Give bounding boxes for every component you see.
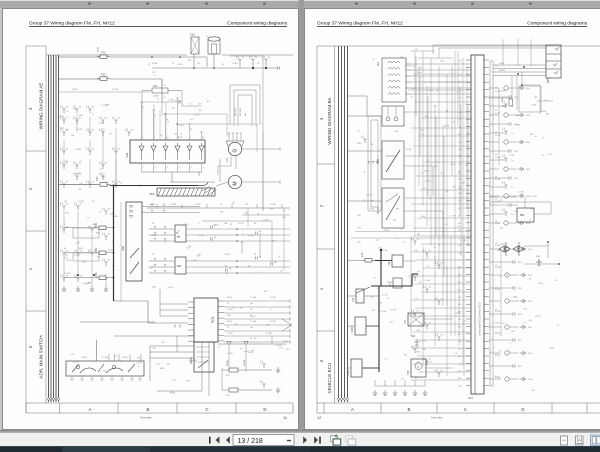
svg-text:G21/B: G21/B: [244, 359, 246, 366]
svg-text:15: 15: [374, 278, 376, 280]
svg-text:1/6: 1/6: [268, 57, 271, 59]
svg-text:15: 15: [80, 161, 82, 163]
svg-text:R: R: [270, 309, 272, 311]
svg-text:2: 2: [319, 204, 324, 207]
svg-text:15A: 15A: [224, 222, 228, 225]
svg-text:b40: b40: [458, 356, 461, 358]
svg-text:b4: b4: [190, 129, 192, 131]
svg-text:BN: BN: [71, 135, 74, 137]
svg-text:3/1: 3/1: [441, 335, 444, 337]
svg-text:0.8 SB: 0.8 SB: [178, 125, 184, 127]
svg-text:1/6: 1/6: [255, 57, 258, 59]
svg-text:BN: BN: [421, 130, 424, 132]
svg-text:a18: a18: [458, 193, 461, 195]
svg-text:4/038: 4/038: [538, 283, 543, 285]
svg-text:58: 58: [250, 338, 252, 340]
svg-text:a12: a12: [150, 268, 153, 270]
svg-text:B35: B35: [393, 220, 396, 222]
svg-text:a12: a12: [541, 155, 544, 157]
svg-text:a33: a33: [458, 304, 461, 306]
svg-text:b1: b1: [154, 115, 156, 117]
svg-text:WH: WH: [264, 291, 268, 293]
svg-text:58: 58: [411, 96, 413, 98]
svg-text:a12: a12: [357, 131, 360, 133]
svg-text:1.0 GN: 1.0 GN: [464, 208, 470, 210]
svg-text:1.0 GN: 1.0 GN: [380, 311, 386, 313]
svg-text:0.8 SB: 0.8 SB: [495, 179, 501, 181]
svg-text:0.8 SB: 0.8 SB: [495, 135, 501, 137]
svg-text:4/038: 4/038: [227, 297, 232, 299]
svg-text:58: 58: [529, 278, 531, 280]
svg-text:4B: 4B: [274, 262, 277, 264]
svg-text:1.5 RD: 1.5 RD: [183, 224, 189, 226]
svg-text:58: 58: [254, 254, 256, 256]
svg-text:31: 31: [427, 266, 429, 268]
svg-text:Y31: Y31: [404, 319, 407, 324]
svg-text:S08: S08: [121, 246, 125, 251]
svg-text:WH: WH: [188, 246, 192, 248]
svg-text:B35: B35: [371, 201, 374, 203]
svg-text:B6: B6: [162, 342, 164, 344]
svg-text:c35: c35: [458, 319, 461, 321]
svg-text:B29: B29: [518, 366, 522, 368]
svg-text:WIRING DIAGRAM BA: WIRING DIAGRAM BA: [327, 96, 332, 144]
svg-text:4/038: 4/038: [283, 341, 288, 343]
svg-text:0.8 SB: 0.8 SB: [391, 310, 397, 312]
svg-text:BA2 2/040: BA2 2/040: [239, 108, 242, 116]
svg-text:b37: b37: [458, 334, 461, 336]
svg-text:a12: a12: [500, 276, 503, 278]
svg-text:1: 1: [143, 167, 144, 169]
svg-text:2/17: 2/17: [198, 103, 202, 105]
svg-text:58: 58: [455, 353, 457, 355]
svg-text:0.8 SB: 0.8 SB: [495, 333, 501, 335]
svg-text:B: B: [177, 232, 179, 235]
svg-text:WH: WH: [120, 361, 124, 363]
svg-text:B: B: [147, 407, 150, 412]
svg-text:B4: B4: [92, 107, 94, 109]
svg-text:1B: 1B: [105, 118, 108, 120]
svg-text:4/0: 4/0: [131, 130, 134, 132]
svg-text:4: 4: [179, 167, 180, 169]
svg-text:C: C: [205, 407, 208, 412]
svg-text:OR/YE: OR/YE: [499, 63, 505, 65]
svg-text:1.0 GN: 1.0 GN: [77, 115, 83, 117]
svg-text:4/038: 4/038: [461, 182, 466, 184]
svg-text:D3: D3: [376, 62, 380, 66]
svg-text:58: 58: [230, 224, 232, 226]
svg-text:B35: B35: [530, 208, 533, 210]
svg-text:5: 5: [202, 137, 203, 139]
svg-text:2/17: 2/17: [177, 236, 181, 238]
svg-text:4/10: 4/10: [528, 249, 533, 251]
svg-text:15: 15: [148, 64, 150, 66]
svg-text:31: 31: [172, 63, 174, 65]
svg-text:a3: a3: [459, 82, 461, 84]
svg-text:B: B: [164, 97, 166, 99]
svg-text:3/1: 3/1: [441, 299, 444, 301]
svg-text:c32: c32: [458, 297, 461, 299]
svg-text:0.8 SB: 0.8 SB: [495, 355, 501, 357]
svg-text:B35: B35: [417, 330, 420, 332]
svg-text:58: 58: [222, 64, 224, 66]
svg-text:c38: c38: [458, 341, 461, 343]
svg-text:58: 58: [499, 351, 501, 353]
svg-text:2/4: 2/4: [108, 260, 111, 262]
svg-text:B35: B35: [546, 114, 549, 116]
svg-text:1/4: 1/4: [423, 188, 426, 190]
svg-text:B35: B35: [197, 256, 200, 258]
svg-text:0.8 SB: 0.8 SB: [270, 297, 276, 299]
svg-text:BN: BN: [459, 188, 462, 190]
svg-text:B315: B315: [526, 223, 532, 225]
svg-text:2/17: 2/17: [389, 321, 393, 323]
svg-text:S125: S125: [376, 207, 380, 214]
svg-text:0.8 SB: 0.8 SB: [444, 126, 450, 128]
svg-text:15: 15: [87, 218, 89, 220]
svg-text:4/038: 4/038: [82, 357, 87, 359]
svg-text:1.0 BN: 1.0 BN: [78, 201, 84, 203]
svg-text:a36: a36: [458, 326, 461, 328]
svg-text:WH: WH: [395, 131, 399, 133]
svg-text:BN: BN: [97, 257, 100, 259]
svg-text:4/038: 4/038: [153, 96, 159, 98]
svg-text:b43: b43: [458, 378, 461, 380]
svg-text:4/038: 4/038: [227, 321, 232, 323]
svg-text:31: 31: [377, 288, 379, 290]
svg-text:B35: B35: [529, 320, 532, 322]
svg-text:2/17: 2/17: [428, 198, 432, 200]
svg-text:15A: 15A: [224, 265, 228, 268]
svg-text:1.0 GN: 1.0 GN: [531, 196, 537, 198]
svg-text:BN/WH: BN/WH: [499, 70, 506, 72]
svg-text:1.5 RD: 1.5 RD: [136, 363, 142, 365]
svg-text:BN: BN: [79, 189, 82, 191]
svg-text:1.0 GN: 1.0 GN: [101, 105, 107, 107]
svg-text:1/4: 1/4: [415, 298, 418, 300]
svg-text:B35: B35: [272, 241, 275, 243]
svg-text:2/4: 2/4: [80, 204, 83, 206]
svg-text:K20: K20: [190, 33, 195, 37]
svg-text:a12: a12: [190, 119, 193, 121]
svg-text:1: 1: [28, 267, 33, 270]
svg-text:Central unit VECU (vehicle ECU: Central unit VECU (vehicle ECU): [479, 302, 482, 336]
svg-text:2/4: 2/4: [66, 251, 69, 253]
svg-text:1.0 GN: 1.0 GN: [75, 173, 81, 175]
svg-text:BA1 2/038: BA1 2/038: [234, 108, 237, 116]
svg-text:2/17: 2/17: [370, 297, 374, 299]
svg-text:2/17: 2/17: [152, 72, 156, 74]
svg-text:B6: B6: [254, 223, 256, 225]
svg-text:B4: B4: [92, 130, 94, 132]
svg-text:1/6: 1/6: [242, 57, 245, 59]
svg-text:7a: 7a: [105, 174, 107, 176]
svg-text:0.8 SB: 0.8 SB: [384, 230, 390, 232]
svg-text:4/038: 4/038: [96, 232, 101, 234]
svg-text:ADR, MAIN SWITCH: ADR, MAIN SWITCH: [39, 335, 44, 378]
svg-text:15: 15: [403, 242, 405, 244]
svg-text:3/1: 3/1: [441, 263, 444, 265]
svg-text:0.8 SB: 0.8 SB: [535, 316, 541, 318]
svg-text:2/17: 2/17: [434, 106, 438, 108]
svg-text:1.0 GN: 1.0 GN: [421, 340, 427, 342]
svg-text:B23: B23: [518, 288, 522, 290]
svg-text:B35: B35: [172, 108, 175, 110]
svg-text:31: 31: [189, 104, 191, 106]
svg-text:2/17: 2/17: [465, 74, 469, 76]
svg-text:a12: a12: [102, 177, 105, 179]
svg-text:15: 15: [99, 212, 101, 214]
svg-text:12: 12: [317, 415, 322, 420]
svg-text:15: 15: [434, 274, 436, 276]
svg-text:2/17: 2/17: [166, 138, 170, 140]
svg-text:2/17: 2/17: [372, 310, 376, 312]
svg-text:31: 31: [92, 114, 94, 116]
svg-text:b22: b22: [458, 223, 461, 225]
svg-text:2/17: 2/17: [80, 183, 84, 185]
svg-text:58: 58: [165, 242, 167, 244]
svg-text:2a: 2a: [511, 214, 514, 216]
svg-text:F59: F59: [101, 73, 106, 77]
svg-text:B35: B35: [358, 215, 361, 217]
svg-text:1/4: 1/4: [415, 49, 418, 51]
svg-text:2/4: 2/4: [94, 251, 97, 253]
svg-text:B35: B35: [412, 88, 415, 90]
svg-text:58: 58: [402, 379, 404, 381]
svg-text:Group 37 Wiring diagram FM, FH: Group 37 Wiring diagram FM, FH, NH12: [317, 21, 403, 27]
svg-text:2.5 WH: 2.5 WH: [170, 204, 177, 206]
svg-text:15A: 15A: [152, 347, 156, 350]
svg-text:b1: b1: [459, 67, 461, 69]
svg-text:15: 15: [415, 378, 417, 380]
svg-text:0.8 SB: 0.8 SB: [495, 267, 501, 269]
svg-text:58: 58: [506, 275, 508, 277]
svg-text:B35: B35: [286, 349, 289, 351]
svg-text:3/1: 3/1: [429, 323, 432, 325]
svg-text:4/038: 4/038: [550, 348, 555, 350]
svg-text:WH: WH: [511, 331, 515, 333]
svg-text:1: 1: [154, 137, 155, 139]
svg-text:B35: B35: [235, 324, 238, 326]
svg-text:1.5 RD: 1.5 RD: [74, 255, 80, 257]
svg-text:BN: BN: [221, 212, 224, 214]
svg-text:WH: WH: [241, 242, 245, 244]
svg-text:1.5 RD: 1.5 RD: [509, 155, 515, 157]
svg-text:150a: 150a: [417, 72, 421, 74]
svg-text:1/0: 1/0: [92, 149, 95, 151]
svg-text:B35: B35: [112, 213, 115, 215]
svg-text:58: 58: [538, 261, 540, 263]
svg-text:a12: a12: [160, 135, 163, 137]
svg-text:0.8 SB: 0.8 SB: [424, 171, 430, 173]
svg-text:0.8 SB: 0.8 SB: [75, 149, 81, 151]
svg-text:WH: WH: [65, 254, 69, 256]
svg-text:1.0 BN: 1.0 BN: [224, 254, 230, 256]
svg-text:R12: R12: [153, 85, 158, 88]
svg-text:a39: a39: [458, 349, 461, 351]
svg-text:4/038: 4/038: [152, 287, 157, 289]
svg-text:31: 31: [453, 122, 455, 124]
svg-text:58: 58: [92, 201, 94, 203]
svg-text:B35: B35: [396, 208, 399, 210]
svg-text:1.0 GN: 1.0 GN: [263, 219, 269, 221]
svg-text:F08W: F08W: [351, 326, 354, 333]
svg-text:1.0 GN: 1.0 GN: [518, 191, 524, 193]
svg-text:c41: c41: [458, 363, 461, 365]
svg-text:150a: 150a: [421, 216, 425, 218]
svg-text:F#2: F#2: [226, 395, 230, 397]
svg-text:2/17: 2/17: [358, 228, 362, 230]
svg-text:0.8 SB: 0.8 SB: [495, 289, 501, 291]
svg-text:0.8 SB: 0.8 SB: [406, 149, 412, 151]
svg-text:1.0 GN: 1.0 GN: [366, 195, 372, 197]
svg-text:S43: S43: [411, 335, 416, 338]
svg-text:1.0 GN: 1.0 GN: [194, 114, 200, 116]
svg-text:BN: BN: [500, 200, 503, 202]
svg-text:0.8 RD: 0.8 RD: [177, 64, 183, 66]
svg-text:b28: b28: [458, 267, 461, 269]
svg-text:3: 3: [28, 107, 33, 110]
svg-text:0.8 SB: 0.8 SB: [425, 180, 431, 182]
svg-text:1/0: 1/0: [66, 107, 69, 109]
svg-text:1.0 GN: 1.0 GN: [112, 89, 118, 91]
svg-text:a12: a12: [502, 323, 505, 325]
svg-text:31: 31: [227, 327, 229, 329]
svg-text:58: 58: [436, 91, 438, 93]
svg-text:31: 31: [465, 320, 467, 322]
svg-text:b13: b13: [458, 156, 461, 158]
svg-text:15A: 15A: [227, 314, 231, 317]
svg-text:a0: a0: [459, 60, 461, 62]
svg-text:2/17: 2/17: [279, 348, 283, 350]
svg-text:B36: B36: [526, 142, 530, 144]
svg-text:b25: b25: [458, 245, 461, 247]
svg-text:B6: B6: [207, 101, 209, 103]
svg-text:F93: F93: [95, 176, 99, 181]
svg-text:0.8 SB: 0.8 SB: [176, 137, 182, 139]
svg-text:2/17: 2/17: [114, 356, 118, 358]
svg-text:B35: B35: [434, 166, 437, 168]
svg-text:F20W: F20W: [347, 369, 350, 376]
svg-text:58: 58: [426, 258, 428, 260]
svg-text:2/4: 2/4: [66, 227, 69, 229]
svg-text:4/07: 4/07: [188, 60, 192, 62]
svg-text:Y06: Y06: [388, 261, 391, 266]
svg-text:F70: F70: [96, 46, 100, 51]
svg-text:15: 15: [396, 238, 398, 240]
svg-text:BN: BN: [167, 364, 170, 366]
svg-text:31: 31: [112, 241, 114, 243]
svg-text:WH: WH: [423, 349, 427, 351]
svg-text:150a: 150a: [357, 143, 362, 145]
svg-text:2: 2: [28, 187, 33, 190]
svg-text:S07: S07: [376, 158, 380, 164]
svg-text:WH: WH: [65, 161, 69, 163]
svg-text:BN: BN: [404, 354, 407, 356]
svg-text:R: R: [154, 75, 156, 77]
svg-text:2.5 WH: 2.5 WH: [250, 321, 257, 323]
svg-text:3: 3: [319, 117, 324, 120]
svg-text:0.8 SB: 0.8 SB: [72, 89, 78, 91]
svg-text:15: 15: [509, 351, 511, 353]
svg-text:1.5 RD: 1.5 RD: [168, 287, 174, 289]
svg-text:D: D: [263, 407, 266, 412]
svg-text:15: 15: [419, 282, 421, 284]
svg-text:1.5 RD: 1.5 RD: [63, 257, 69, 259]
svg-text:58: 58: [515, 211, 517, 213]
svg-text:4/14: 4/14: [528, 301, 533, 303]
svg-text:1.5 RD: 1.5 RD: [66, 260, 72, 262]
svg-text:A: A: [351, 407, 354, 412]
svg-text:0: 0: [319, 359, 324, 362]
svg-text:5: 5: [191, 167, 192, 169]
svg-text:2.5 WH: 2.5 WH: [250, 297, 257, 299]
svg-text:15: 15: [557, 325, 559, 327]
svg-text:2.5 WH: 2.5 WH: [198, 235, 205, 237]
svg-text:58: 58: [555, 280, 557, 282]
svg-text:3 tw-mba: 3 tw-mba: [431, 416, 443, 420]
svg-text:15A: 15A: [501, 98, 504, 102]
svg-text:15: 15: [67, 111, 69, 113]
svg-text:WH: WH: [419, 67, 423, 69]
svg-text:B35: B35: [358, 242, 361, 244]
svg-text:BN: BN: [441, 198, 444, 200]
svg-text:2/17: 2/17: [399, 229, 403, 231]
svg-text:0.8 SB: 0.8 SB: [238, 223, 244, 225]
svg-text:14/2: 14/2: [514, 97, 519, 99]
svg-text:A17: A17: [468, 396, 473, 400]
svg-text:B: B: [408, 407, 411, 412]
svg-text:2/4: 2/4: [108, 209, 111, 211]
svg-text:BN: BN: [66, 129, 69, 131]
svg-text:WH: WH: [187, 380, 191, 382]
svg-text:0.8: 0.8: [495, 154, 497, 156]
svg-text:1.5 RD: 1.5 RD: [382, 295, 388, 297]
svg-text:0.8 SB: 0.8 SB: [495, 113, 501, 115]
svg-text:4B: 4B: [259, 231, 262, 233]
svg-text:b19: b19: [458, 201, 461, 203]
svg-text:31: 31: [422, 134, 424, 136]
svg-text:31: 31: [385, 385, 387, 387]
svg-text:2/3: 2/3: [118, 149, 121, 151]
svg-text:1.0 GN: 1.0 GN: [213, 225, 219, 227]
svg-text:B25: B25: [546, 78, 550, 83]
svg-text:0.8: 0.8: [495, 110, 497, 112]
svg-text:V92: V92: [125, 152, 129, 158]
svg-text:1.0 BN: 1.0 BN: [227, 333, 233, 335]
svg-text:F43: F43: [360, 252, 364, 257]
svg-text:B35: B35: [417, 234, 420, 236]
svg-text:4B: 4B: [214, 237, 217, 239]
svg-text:31: 31: [227, 303, 229, 305]
svg-text:31: 31: [417, 362, 419, 364]
svg-text:a12: a12: [194, 360, 197, 362]
svg-text:31: 31: [242, 234, 244, 236]
svg-text:15: 15: [509, 342, 511, 344]
svg-text:0: 0: [142, 137, 143, 139]
svg-text:2/17: 2/17: [524, 309, 528, 311]
svg-text:14/2: 14/2: [514, 178, 519, 180]
svg-text:b10: b10: [458, 134, 461, 136]
svg-text:4/0: 4/0: [105, 163, 108, 165]
svg-text:BN: BN: [177, 230, 180, 232]
svg-text:4/038: 4/038: [78, 248, 83, 250]
svg-text:D: D: [521, 407, 524, 412]
svg-text:31: 31: [218, 347, 220, 349]
svg-text:0.8 SB: 0.8 SB: [495, 223, 501, 225]
svg-text:BN: BN: [453, 186, 456, 188]
svg-text:0.8 SB: 0.8 SB: [112, 216, 118, 218]
